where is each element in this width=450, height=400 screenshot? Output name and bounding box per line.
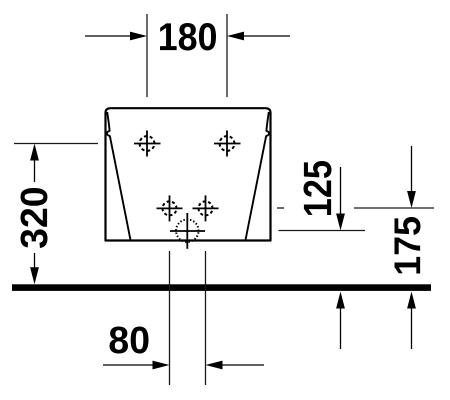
- dimension 180: label: [160, 23, 216, 51]
- dimension 125: label: [304, 161, 332, 215]
- floor line: [12, 284, 431, 291]
- dimension 80: extension line right: [205, 251, 207, 385]
- left side slant line: [107, 112, 131, 240]
- dimension 80: left arrowhead: [153, 361, 170, 370]
- dimension 175: label: [394, 217, 420, 274]
- dimension 80: left arrow line: [103, 364, 156, 366]
- dimension 125: down arrowhead: [336, 214, 345, 231]
- dimension 125: below-floor up arrowhead: [336, 292, 345, 309]
- dimension 80: right arrowhead: [206, 361, 223, 370]
- dimension 80: extension line left: [169, 251, 171, 385]
- dimension 125: extension line at drain height: [279, 230, 366, 232]
- dimension 180: right arrowhead: [227, 32, 244, 41]
- water connection hole lower-left: [157, 195, 183, 221]
- dimension 175: below-floor line: [411, 305, 413, 349]
- dimension 180: extension line right: [226, 14, 228, 97]
- dimension 320: label: [21, 188, 48, 248]
- dimension 320: bottom arrowhead: [30, 267, 39, 284]
- fixing hole upper-left: [134, 131, 161, 157]
- dimension 180: left arrowhead: [130, 32, 147, 41]
- dimension 180: right arrow line: [241, 35, 290, 37]
- dimension 175: upper line: [411, 146, 413, 194]
- dimension 175: below-floor up arrowhead: [407, 292, 416, 309]
- dimension 125: below-floor line: [340, 305, 342, 349]
- dimension 180: left arrow line: [85, 35, 133, 37]
- fixing hole upper-right: [214, 131, 241, 157]
- dimension 320: upper line segment: [34, 157, 36, 182]
- dimension 180: extension line left: [146, 14, 148, 97]
- dimension 320: top extension line: [14, 143, 98, 145]
- right side slant line: [246, 112, 270, 240]
- water connection hole lower-right: [193, 195, 219, 221]
- dimension 175: down arrowhead: [407, 191, 416, 208]
- dimension 320: lower line segment: [34, 253, 36, 271]
- bidet body outline: [106, 108, 271, 240]
- dimension 80: right arrow line: [219, 364, 264, 366]
- dimension 80: label: [109, 326, 148, 353]
- dimension 320: top arrowhead: [30, 144, 39, 161]
- dimension 125: upper line: [340, 167, 342, 217]
- dimension 175: extension line right part: [354, 207, 434, 209]
- drain hole center: [170, 213, 205, 249]
- dimension 175: extension line short dash: [277, 207, 284, 209]
